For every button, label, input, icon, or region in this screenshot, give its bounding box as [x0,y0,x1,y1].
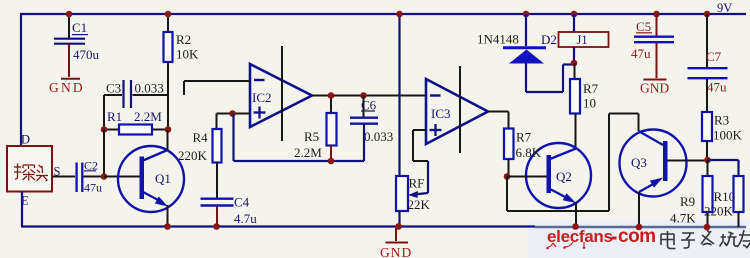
svg-text:0.033: 0.033 [135,81,164,96]
svg-text:GND: GND [380,245,412,258]
svg-text:IC3: IC3 [431,106,451,121]
svg-text:47u: 47u [84,181,102,195]
svg-text:GND: GND [640,81,669,96]
svg-text:R10: R10 [714,189,736,204]
svg-text:C1: C1 [72,20,87,35]
svg-text:100K: 100K [713,128,743,143]
svg-text:R7: R7 [583,81,599,96]
svg-text:R5: R5 [304,129,319,144]
svg-text:elecfans: elecfans [547,227,613,246]
svg-text:IC2: IC2 [252,90,272,105]
svg-text:10K: 10K [176,47,199,62]
svg-text:2.2M: 2.2M [294,145,322,160]
svg-text:Q2: Q2 [556,169,572,184]
svg-text:D: D [21,133,30,147]
svg-text:Q1: Q1 [155,171,171,186]
svg-text:4.7u: 4.7u [234,211,257,226]
svg-text:22K: 22K [408,197,431,212]
svg-text:10: 10 [583,96,596,111]
svg-text:C5: C5 [636,19,651,34]
svg-text:com: com [618,226,656,247]
svg-text:R1: R1 [107,109,122,124]
svg-text:470u: 470u [73,47,100,62]
svg-text:J1: J1 [577,33,588,47]
svg-text:47u: 47u [707,80,727,95]
svg-text:1N4148: 1N4148 [477,32,519,47]
svg-text:6.8K: 6.8K [516,145,542,160]
svg-text:GND: GND [49,80,85,95]
svg-text:C4: C4 [234,195,250,210]
svg-text:C6: C6 [361,98,377,113]
svg-text:220K: 220K [178,148,208,163]
svg-text:47u: 47u [631,46,651,61]
svg-text:Q3: Q3 [631,155,647,170]
svg-text:C3: C3 [106,81,121,96]
svg-text:220K: 220K [704,204,734,219]
svg-text:2.2M: 2.2M [134,109,162,124]
svg-text:R4: R4 [193,130,209,145]
svg-text:RF: RF [409,176,425,191]
svg-text:4.7K: 4.7K [670,211,696,226]
svg-text:D2: D2 [541,32,557,47]
svg-text:R9: R9 [680,194,695,209]
svg-text:9V: 9V [717,1,732,15]
svg-text:R2: R2 [176,32,191,47]
svg-text:R3: R3 [714,113,729,128]
svg-text:C7: C7 [706,49,722,64]
svg-text:0.033: 0.033 [364,129,393,144]
svg-text:R7: R7 [516,130,532,145]
